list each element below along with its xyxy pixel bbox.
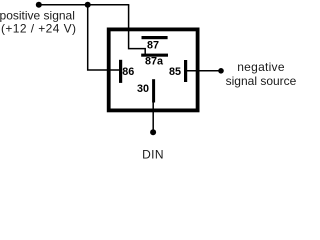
- svg-text:signal source: signal source: [226, 74, 297, 88]
- svg-text:86: 86: [122, 66, 134, 78]
- node positive source terminal: [36, 2, 42, 8]
- svg-text:positive signal: positive signal: [0, 8, 75, 22]
- svg-text:87: 87: [147, 40, 159, 52]
- pin 85 contact bar: [184, 60, 187, 82]
- wire pin 30 output down: [152, 100, 154, 132]
- svg-text:85: 85: [169, 66, 181, 78]
- pin 87a contact bar: [141, 54, 168, 57]
- svg-text:DIN: DIN: [142, 148, 164, 162]
- svg-text:(+12 / +24 V): (+12 / +24 V): [1, 21, 77, 35]
- node junction on positive feed: [85, 2, 91, 8]
- svg-text:87a: 87a: [145, 56, 164, 68]
- wire pin 85 to negative source: [186, 70, 221, 72]
- wire positive feed down to 87a contact: [129, 5, 146, 55]
- svg-text:30: 30: [137, 83, 149, 95]
- pin 87 contact bar: [142, 36, 168, 39]
- wire junction down to pin 86: [88, 5, 120, 70]
- node negative source terminal: [218, 68, 224, 74]
- pin 86 contact bar: [119, 60, 122, 83]
- pin 30 contact bar: [152, 79, 155, 102]
- svg-text:negative: negative: [237, 60, 285, 74]
- wire positive feed horizontal: [39, 4, 130, 6]
- relay body K1: [109, 29, 198, 110]
- node output terminal: [150, 129, 156, 135]
